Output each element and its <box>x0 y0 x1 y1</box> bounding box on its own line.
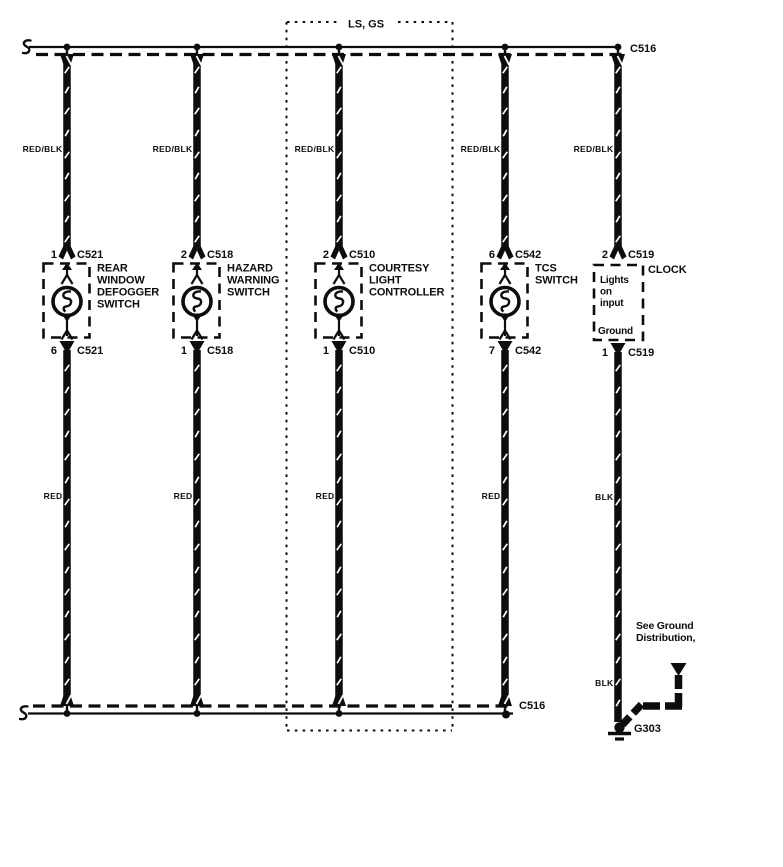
connector C518 pin 2 (top of hazard warning switch S2) <box>181 245 233 261</box>
wire color label RED/BLK (clock branch) <box>574 144 614 154</box>
wire flare at top bus (clock branch) <box>611 46 625 65</box>
component name label <box>97 263 159 311</box>
svg-text:Ground: Ground <box>598 326 633 337</box>
wire flare at top bus x=67 <box>60 46 74 65</box>
power bus (top), node C516 <box>29 47 622 55</box>
wire RED from hazard warning switch S2 to bottom bus <box>195 350 199 700</box>
connector C519 pin 1 (clock ground) <box>602 343 654 359</box>
TCS switch S3 (dashed box with illumination bulb) <box>482 263 528 340</box>
svg-text:C510: C510 <box>349 345 375 357</box>
wire color label RED <box>316 491 335 501</box>
svg-text:REAR: REAR <box>97 263 128 275</box>
svg-text:COURTESY: COURTESY <box>369 263 430 275</box>
connector C521 pin 6 (bottom of rear window defogger switch S1) <box>51 341 103 357</box>
wire color label RED <box>174 491 193 501</box>
svg-text:HAZARD: HAZARD <box>227 263 273 275</box>
junction node on top bus x=197 <box>194 44 201 51</box>
svg-text:1: 1 <box>181 345 187 357</box>
wire color label RED <box>482 491 501 501</box>
svg-text:on: on <box>600 287 612 298</box>
wire RED from rear window defogger switch S1 to bottom bus <box>65 350 69 700</box>
ground G303 symbol <box>608 722 631 739</box>
svg-text:2: 2 <box>323 249 329 261</box>
svg-text:C519: C519 <box>628 249 654 261</box>
svg-text:SWITCH: SWITCH <box>97 299 140 311</box>
wire color label RED/BLK <box>153 144 193 154</box>
junction node on top bus x=618 <box>615 44 622 51</box>
connector arrow from ground distribution <box>671 663 687 676</box>
wire flare at bottom bus x=197 <box>190 695 204 714</box>
wire RED/BLK to TCS switch S3 <box>503 56 507 248</box>
svg-text:6: 6 <box>489 249 495 261</box>
connector label C516 (bottom) <box>519 700 545 712</box>
wire color label RED <box>44 491 63 501</box>
wire flare at top bus x=339 <box>332 46 346 65</box>
svg-text:6: 6 <box>51 345 57 357</box>
dotted enclosure LS, GS variant box <box>287 22 453 731</box>
wire flare at bottom bus x=339 <box>332 695 346 714</box>
svg-text:C521: C521 <box>77 345 103 357</box>
svg-text:2: 2 <box>602 249 608 261</box>
junction node on bottom bus x=67 <box>64 710 71 717</box>
bus continuation symbol S (bottom left) <box>20 706 28 719</box>
svg-text:C519: C519 <box>628 347 654 359</box>
junction node on bottom bus x=339 <box>336 710 343 717</box>
svg-text:See Ground: See Ground <box>636 620 694 632</box>
wire color label BLK (upper) <box>595 492 614 502</box>
wire RED/BLK to clock <box>616 56 620 248</box>
wire RED/BLK to rear window defogger switch S1 <box>65 56 69 248</box>
svg-text:C542: C542 <box>515 249 541 261</box>
svg-text:C518: C518 <box>207 249 233 261</box>
wire RED/BLK to hazard warning switch S2 <box>195 56 199 248</box>
svg-text:RED/BLK: RED/BLK <box>23 144 63 154</box>
component name label CLOCK <box>648 264 687 276</box>
connector C521 pin 1 (top of rear window defogger switch S1) <box>51 245 103 261</box>
svg-text:C542: C542 <box>515 345 541 357</box>
svg-text:SWITCH: SWITCH <box>227 287 270 299</box>
wire from ground distribution (dashed elbow) <box>623 675 683 725</box>
clock (dashed box) <box>594 265 643 340</box>
wire color label RED/BLK <box>461 144 501 154</box>
junction node bottom bus end (C516) <box>502 711 510 719</box>
svg-text:RED: RED <box>174 491 193 501</box>
svg-text:7: 7 <box>489 345 495 357</box>
rear window defogger switch S1 (dashed box with illumination bulb) <box>44 263 90 340</box>
connector C510 pin 2 (top of courtesy light controller U1) <box>323 245 375 261</box>
junction node on top bus x=339 <box>336 44 343 51</box>
svg-text:RED: RED <box>44 491 63 501</box>
label LS, GS <box>348 19 384 31</box>
junction node on top bus x=67 <box>64 44 71 51</box>
svg-text:RED: RED <box>482 491 501 501</box>
wire RED from TCS switch S3 to bottom bus <box>503 350 507 700</box>
wire flare at bottom bus x=505 <box>498 695 512 714</box>
bus continuation symbol S (top left) <box>23 40 31 53</box>
hazard warning switch S2 (dashed box with illumination bulb) <box>174 263 220 340</box>
svg-text:TCS: TCS <box>535 263 557 275</box>
wire flare at top bus x=505 <box>498 46 512 65</box>
connector C519 pin 2 (clock lights-on input) <box>602 245 654 261</box>
svg-text:LIGHT: LIGHT <box>369 275 402 287</box>
svg-text:RED/BLK: RED/BLK <box>574 144 614 154</box>
svg-text:RED/BLK: RED/BLK <box>295 144 335 154</box>
wire RED/BLK to courtesy light controller U1 <box>337 56 341 248</box>
svg-text:CLOCK: CLOCK <box>648 264 687 276</box>
svg-text:RED/BLK: RED/BLK <box>153 144 193 154</box>
junction node on top bus x=505 <box>502 44 509 51</box>
svg-text:Distribution,: Distribution, <box>636 632 696 644</box>
wire BLK from clock to ground G303 <box>616 352 620 722</box>
svg-text:CONTROLLER: CONTROLLER <box>369 287 445 299</box>
connector C542 pin 7 (bottom of TCS switch S3) <box>489 341 541 357</box>
wire flare at top bus x=197 <box>190 46 204 65</box>
svg-text:G303: G303 <box>634 723 661 735</box>
bottom bus, node C516 <box>28 706 513 714</box>
wire color label RED/BLK <box>23 144 63 154</box>
svg-text:C510: C510 <box>349 249 375 261</box>
svg-text:C518: C518 <box>207 345 233 357</box>
svg-text:input: input <box>600 298 624 309</box>
svg-text:1: 1 <box>602 347 608 359</box>
component name label <box>535 263 578 287</box>
connector C510 pin 1 (bottom of courtesy light controller U1) <box>323 341 375 357</box>
ground label G303 <box>634 723 661 735</box>
connector label C516 (top) <box>630 43 656 55</box>
wire color label RED/BLK <box>295 144 335 154</box>
connector C542 pin 6 (top of TCS switch S3) <box>489 245 541 261</box>
svg-text:C516: C516 <box>630 43 656 55</box>
svg-text:RED: RED <box>316 491 335 501</box>
component name label <box>227 263 279 299</box>
svg-text:WINDOW: WINDOW <box>97 275 145 287</box>
svg-text:C521: C521 <box>77 249 103 261</box>
wire flare at bottom bus x=67 <box>60 695 74 714</box>
svg-text:LS, GS: LS, GS <box>348 19 384 31</box>
svg-text:DEFOGGER: DEFOGGER <box>97 287 159 299</box>
svg-text:1: 1 <box>51 249 57 261</box>
svg-text:BLK: BLK <box>595 678 614 688</box>
see ground distribution note <box>636 620 696 644</box>
svg-text:SWITCH: SWITCH <box>535 275 578 287</box>
svg-text:1: 1 <box>323 345 329 357</box>
wire color label BLK (lower) <box>595 678 614 688</box>
svg-text:RED/BLK: RED/BLK <box>461 144 501 154</box>
courtesy light controller U1 (dashed box with illumination bulb) <box>316 263 362 340</box>
svg-text:2: 2 <box>181 249 187 261</box>
connector C518 pin 1 (bottom of hazard warning switch S2) <box>181 341 233 357</box>
junction node on bottom bus x=197 <box>194 710 201 717</box>
svg-text:C516: C516 <box>519 700 545 712</box>
wire RED from courtesy light controller U1 to bottom bus <box>337 350 341 700</box>
component name label <box>369 263 445 299</box>
svg-text:WARNING: WARNING <box>227 275 279 287</box>
svg-text:Lights: Lights <box>600 275 629 286</box>
svg-text:BLK: BLK <box>595 492 614 502</box>
